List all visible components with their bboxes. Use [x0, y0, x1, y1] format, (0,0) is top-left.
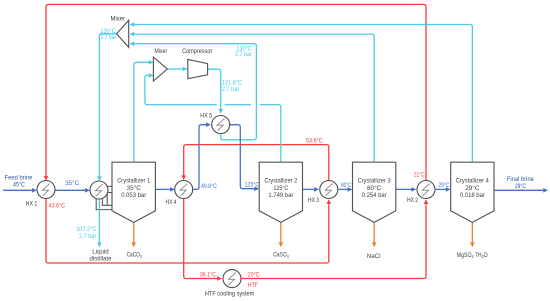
wire blue HX2 to crystallizer4 — [436, 188, 446, 190]
wire cyan compressor to HX5 top — [208, 69, 221, 109]
svg-text:HTF: HTF — [248, 282, 258, 289]
wire cyan crystallizer4 vapor to big mixer — [134, 25, 472, 163]
mixer M2 — [153, 57, 167, 81]
svg-text:35°C: 35°C — [65, 179, 79, 187]
arrow red into HX1 top — [44, 176, 49, 181]
svg-text:HX 3: HX 3 — [308, 197, 319, 204]
wire cyan mixer2 to compressor — [168, 68, 184, 70]
svg-text:125°C: 125°C — [274, 184, 289, 192]
svg-text:0.018 bar: 0.018 bar — [460, 192, 486, 199]
arrow red into HX2 bottom — [424, 199, 429, 204]
wire orange NaCl outlet — [373, 222, 375, 242]
svg-text:Crystallizer 2: Crystallizer 2 — [264, 178, 297, 185]
wire red HX4 bottom to HTF cooler — [184, 198, 218, 278]
svg-text:NaCl: NaCl — [367, 253, 381, 260]
svg-text:Mixer: Mixer — [154, 48, 168, 55]
svg-text:HX 5: HX 5 — [200, 112, 212, 119]
svg-text:36.1°C: 36.1°C — [200, 271, 216, 279]
svg-text:HTF cooling system: HTF cooling system — [205, 291, 254, 298]
svg-text:53.6°C: 53.6°C — [306, 136, 323, 144]
svg-text:CaSO4: CaSO4 — [273, 252, 289, 259]
svg-text:Crystallizer 1: Crystallizer 1 — [117, 178, 150, 185]
wire HTF hot loop: top header red — [46, 4, 426, 180]
wire cyan big mixer out down to crystallizer1 heater — [99, 34, 116, 177]
svg-text:Mixer: Mixer — [111, 16, 126, 23]
crystallizer1 heater circle — [90, 181, 108, 199]
svg-text:2.7 bar: 2.7 bar — [222, 86, 240, 93]
svg-text:HX 1: HX 1 — [26, 201, 38, 208]
svg-text:Final brine: Final brine — [507, 176, 534, 183]
svg-text:20°C: 20°C — [248, 271, 260, 279]
arrow red into HTF cooler — [217, 276, 222, 281]
wire red HX3 top to HX4 top — [184, 145, 329, 181]
svg-text:29°C: 29°C — [438, 181, 449, 189]
heat exchanger HX 3 — [320, 181, 338, 199]
wire cyan crystallizer3 vapor to big mixer — [134, 34, 374, 162]
svg-text:Compressor: Compressor — [182, 48, 213, 55]
svg-text:21°C: 21°C — [414, 171, 425, 179]
arrow red into HX4 top — [181, 175, 186, 180]
svg-text:Feed brine: Feed brine — [5, 174, 33, 181]
crystallizer 4 vessel — [451, 162, 494, 222]
crystallizer 2 vessel — [259, 162, 302, 222]
svg-text:Crystallizer 3: Crystallizer 3 — [358, 178, 391, 185]
svg-text:HX 4: HX 4 — [166, 199, 177, 206]
svg-text:125°C: 125°C — [245, 180, 260, 188]
wire red HTF cooler out to HX2 bottom — [241, 204, 426, 278]
svg-text:43.6°C: 43.6°C — [49, 202, 66, 210]
compressor — [188, 59, 208, 78]
svg-text:distillate: distillate — [90, 256, 112, 263]
wire blue crystallizer3 to HX2 — [396, 188, 412, 190]
heat exchanger HX 2 — [417, 181, 435, 199]
svg-text:35°C: 35°C — [127, 184, 142, 192]
wire blue HX3 to crystallizer3 — [339, 188, 348, 190]
svg-text:MgSO4 7H2O: MgSO4 7H2O — [457, 252, 488, 259]
svg-text:2.7 bar: 2.7 bar — [79, 233, 97, 240]
wire blue feed brine into HX1 — [3, 189, 32, 191]
arrow red into HX3 bottom — [327, 199, 332, 204]
wire orange CaCO3 outlet — [133, 222, 135, 242]
svg-text:80°C: 80°C — [367, 184, 382, 192]
crystallizer 3 vessel — [353, 162, 396, 222]
svg-text:80°C: 80°C — [341, 181, 352, 189]
crystallizer1 heater piping — [96, 186, 112, 209]
svg-text:49.8°C: 49.8°C — [201, 182, 217, 190]
svg-text:45°C: 45°C — [13, 180, 25, 188]
wire cyan heater out to liquid distillate — [98, 199, 100, 243]
wire cyan crystallizer1 vapor to mixer2 — [134, 62, 149, 162]
svg-text:HX 2: HX 2 — [407, 197, 418, 204]
wire blue crystallizer2 to HX3 — [303, 188, 315, 190]
svg-text:29°C: 29°C — [515, 182, 526, 190]
wire orange MgSO4 outlet — [471, 222, 473, 242]
HTF cooling exchanger — [223, 270, 241, 288]
wire blue crystallizer1 to HX4 — [155, 188, 170, 190]
svg-text:2.7 bar: 2.7 bar — [100, 34, 116, 41]
wire cyan crystallizer2 vapor to mixer2 (with crossover gaps) — [145, 75, 281, 162]
wire blue HX5 down to crystallizer2 — [230, 125, 255, 189]
heat exchanger HX 5 — [212, 116, 230, 134]
wire blue crystallizer4 to final brine — [494, 189, 543, 191]
svg-text:Crystallizer 4: Crystallizer 4 — [456, 178, 489, 185]
wire red HX1 bottom to HX3 bottom — [46, 198, 329, 263]
svg-text:Liquid: Liquid — [92, 248, 109, 255]
svg-text:0.053 bar: 0.053 bar — [121, 192, 147, 199]
svg-text:1.749 bar: 1.749 bar — [268, 192, 294, 199]
svg-text:CaCO3: CaCO3 — [127, 252, 143, 259]
big mixer M1 — [117, 20, 129, 47]
wire blue HX4 up to HX5 — [193, 125, 207, 190]
heat exchanger HX 1 — [37, 181, 55, 199]
crystallizer 1 vessel — [112, 162, 155, 222]
heat exchanger HX 4 — [175, 181, 193, 199]
wire cyan HX5 bottom loop up to big mixer (130C) — [134, 44, 256, 140]
svg-text:29°C: 29°C — [465, 184, 480, 192]
svg-text:0.254 bar: 0.254 bar — [362, 192, 388, 199]
wire blue HX1 to crystallizer1 heater — [55, 189, 85, 191]
svg-text:2.7 bar: 2.7 bar — [235, 51, 253, 58]
wire orange CaSO4 outlet — [280, 222, 282, 242]
